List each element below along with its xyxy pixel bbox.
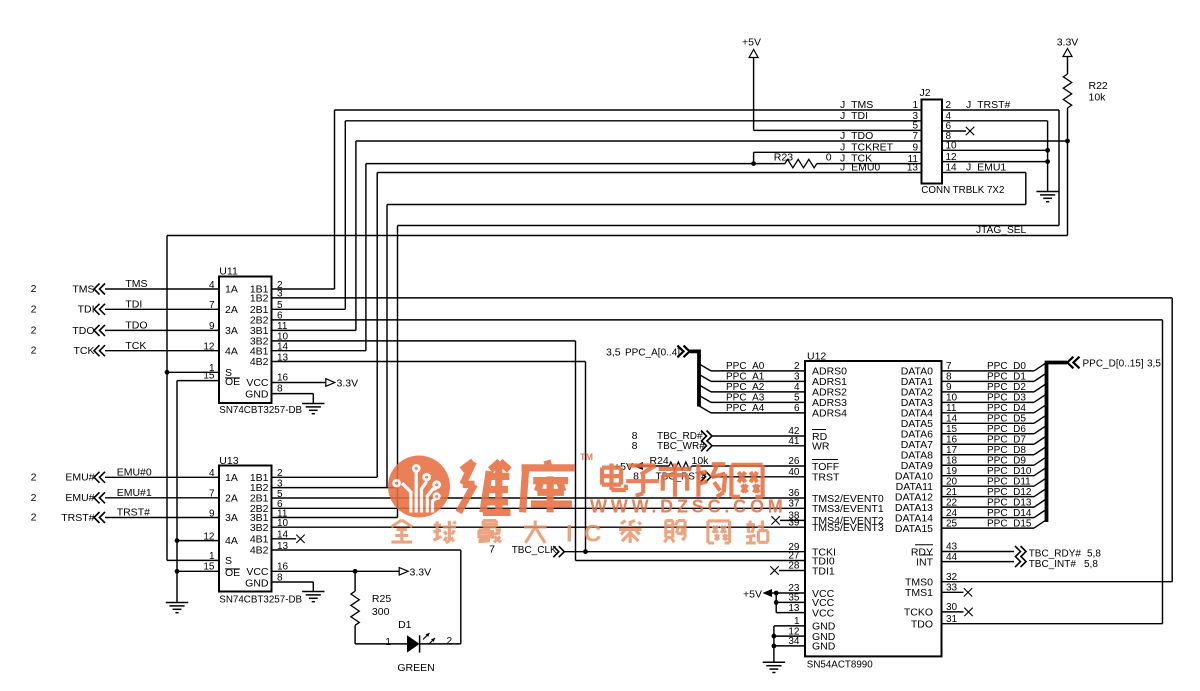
no-connect X on U13 pin14 bbox=[296, 535, 304, 543]
svg-text:TMS5/EVENT3: TMS5/EVENT3 bbox=[812, 522, 884, 534]
svg-text:TDO: TDO bbox=[911, 619, 933, 631]
svg-text:I: I bbox=[566, 521, 573, 548]
svg-text:2: 2 bbox=[31, 471, 37, 483]
svg-text:PPC_D3: PPC_D3 bbox=[987, 393, 1026, 404]
wire TBC_WR# bbox=[712, 445, 805, 447]
port TBC_INT# chevron bbox=[1015, 556, 1026, 567]
svg-text:TMS1: TMS1 bbox=[905, 587, 933, 599]
svg-text:TRST: TRST bbox=[812, 472, 840, 484]
svg-text:PPC_D6: PPC_D6 bbox=[987, 424, 1026, 435]
bus PPC_D trunk bbox=[1047, 363, 1068, 523]
svg-text:2: 2 bbox=[31, 324, 37, 336]
wire port EMU#0 to U13 bbox=[105, 476, 219, 478]
svg-text:EMU#0: EMU#0 bbox=[117, 467, 152, 479]
svg-text:3,5: 3,5 bbox=[606, 347, 621, 359]
svg-text:TMS: TMS bbox=[125, 278, 147, 290]
svg-text:2A: 2A bbox=[225, 304, 238, 316]
junction U13 OE bbox=[175, 569, 180, 574]
svg-text:R22: R22 bbox=[1089, 80, 1108, 92]
svg-text:39: 39 bbox=[788, 517, 800, 528]
bus entry PPC_D5 bbox=[1034, 415, 1046, 423]
port EMU#1 chevron bbox=[94, 492, 105, 503]
port TDO chevron bbox=[94, 325, 105, 336]
port TCK chevron bbox=[94, 345, 105, 356]
svg-text:J2: J2 bbox=[920, 87, 931, 99]
svg-text:WWW.DZSC.COM: WWW.DZSC.COM bbox=[590, 497, 787, 517]
svg-text:PPC_D7: PPC_D7 bbox=[987, 434, 1026, 445]
wire net TDO (U11 2B2 to U12 TDO pin31) bbox=[272, 319, 1163, 321]
wire D1 cathode lead bbox=[420, 643, 461, 645]
wire R23 to J2 pin11 bbox=[817, 163, 922, 165]
svg-text:VCC: VCC bbox=[812, 607, 835, 619]
wire net JTAG_SEL (R22 down, across to U11 S) bbox=[1067, 108, 1069, 236]
wire U12 pin33 stub bbox=[942, 591, 964, 593]
svg-text:R23: R23 bbox=[774, 152, 793, 164]
svg-text:J_TDO: J_TDO bbox=[840, 130, 873, 142]
svg-text:D1: D1 bbox=[398, 619, 412, 631]
no-connect X on J2 pin6 bbox=[966, 127, 974, 135]
wire PPC_D12 bbox=[942, 496, 1035, 498]
svg-text:2A: 2A bbox=[225, 492, 238, 504]
svg-text:PPC_D11: PPC_D11 bbox=[987, 476, 1031, 487]
svg-text:R25: R25 bbox=[372, 593, 391, 605]
svg-text:EMU#: EMU# bbox=[65, 492, 94, 504]
svg-text:PPC_D4: PPC_D4 bbox=[987, 403, 1026, 414]
wire net J_TCK (U11 4B1 pin14 via R23 to J2 pin11) bbox=[272, 350, 366, 352]
svg-text:PPC_A3: PPC_A3 bbox=[726, 393, 765, 404]
no-connect X on U12 pin30 bbox=[964, 608, 972, 616]
svg-text:1B2: 1B2 bbox=[250, 293, 269, 305]
junction TCKI/TBC_CLK bbox=[583, 549, 588, 554]
svg-text:4A: 4A bbox=[225, 345, 238, 357]
svg-text:2: 2 bbox=[447, 636, 453, 647]
bus PPC_D[0..15] chevron and label bbox=[1067, 357, 1079, 369]
no-connect X on U12 pin38 bbox=[771, 516, 779, 524]
svg-text:PPC_D5: PPC_D5 bbox=[987, 414, 1026, 425]
wire U12 pin38 stub bbox=[780, 519, 805, 521]
power 3.3V arrow (U13) bbox=[399, 568, 408, 576]
junction TCK node bbox=[751, 161, 756, 166]
LED D1 symbol bbox=[407, 635, 420, 652]
svg-text:TDI: TDI bbox=[125, 299, 142, 311]
svg-text:3: 3 bbox=[277, 478, 283, 489]
svg-text:U12: U12 bbox=[807, 351, 826, 363]
svg-text:SN74CBT3257-DB: SN74CBT3257-DB bbox=[219, 595, 302, 606]
wire R25 bottom lead to D1 bbox=[354, 625, 356, 644]
junction VCC35 bbox=[774, 600, 779, 605]
svg-text:4B2: 4B2 bbox=[250, 545, 269, 557]
wire PPC_D4 bbox=[942, 412, 1035, 414]
svg-text:2: 2 bbox=[31, 492, 37, 504]
wire PPC_D13 bbox=[942, 506, 1035, 508]
wire U13 3B2 to U12 TMS5/EVENT3 pin39 bbox=[272, 526, 806, 528]
ground symbol at J2 bbox=[1036, 191, 1058, 193]
svg-text:15: 15 bbox=[203, 562, 215, 573]
svg-text:37: 37 bbox=[788, 499, 800, 510]
wire TBC_CLK to U12 TCKI bbox=[564, 551, 805, 553]
svg-text:GND: GND bbox=[245, 577, 269, 589]
wire U12 pin28 stub bbox=[779, 570, 805, 572]
wire PPC_D6 bbox=[942, 433, 1035, 435]
resistor R22 bbox=[1063, 74, 1071, 108]
svg-text:PPC_A4: PPC_A4 bbox=[726, 403, 765, 414]
svg-text:PPC_D[0..15]: PPC_D[0..15] bbox=[1083, 358, 1144, 369]
svg-text:U13: U13 bbox=[219, 455, 238, 467]
svg-text:S: S bbox=[225, 555, 232, 567]
svg-text:GREEN: GREEN bbox=[397, 662, 434, 674]
wire U11 OE / U13 4A,OE to ground bbox=[177, 380, 219, 382]
wire J2 pin12 bbox=[942, 161, 1048, 163]
wire PPC_D2 bbox=[942, 391, 1035, 393]
wire TBC_INT# bbox=[942, 561, 1015, 563]
bus entry PPC_D3 bbox=[1034, 394, 1046, 402]
svg-text:INT: INT bbox=[916, 556, 934, 568]
wire net TMS0 (U11 1B2 to U12 TMS0 pin32) bbox=[272, 297, 1173, 299]
wire U13 2B2 to U12 TMS3/EVENT1 pin37 bbox=[272, 507, 806, 509]
svg-text:PPC_D2: PPC_D2 bbox=[987, 382, 1026, 393]
wire J2 pin6 stub no-connect bbox=[942, 130, 966, 132]
svg-text:PPC_D14: PPC_D14 bbox=[987, 508, 1032, 519]
svg-text:J_TRST#: J_TRST# bbox=[966, 99, 1011, 111]
wire PPC_A0 bbox=[711, 370, 805, 372]
U12 TOFF overbar bbox=[812, 459, 838, 461]
wire R24 to U12 TOFF bbox=[692, 465, 806, 467]
bus entry PPC_D4 bbox=[1034, 405, 1046, 413]
svg-text:31: 31 bbox=[946, 614, 958, 625]
junction GND12 bbox=[772, 634, 777, 639]
junction U13 4A bbox=[175, 538, 180, 543]
svg-text:J_EMU0: J_EMU0 bbox=[840, 162, 880, 174]
wire net TDI0 (U11 3B2 to U12 TDI0 pin27) bbox=[272, 340, 576, 342]
wire TBC_RDY# bbox=[942, 551, 1015, 553]
wire +5V to VCC pins bbox=[772, 592, 805, 594]
svg-text:3B2: 3B2 bbox=[250, 522, 269, 534]
power +5V symbol (top, feeds J2 pin 5) bbox=[749, 50, 758, 58]
svg-text:2: 2 bbox=[31, 283, 37, 295]
svg-text:3.3V: 3.3V bbox=[337, 378, 359, 390]
bus entry PPC_A4 bbox=[699, 406, 711, 413]
bus entry PPC_D15 bbox=[1034, 520, 1046, 528]
wire U13 4B1 stub no-connect bbox=[272, 538, 297, 540]
bus entry PPC_A1 bbox=[699, 374, 711, 381]
svg-text:7: 7 bbox=[912, 131, 918, 142]
svg-text:TBC_CLK: TBC_CLK bbox=[512, 545, 557, 556]
svg-text:PPC_A0: PPC_A0 bbox=[726, 361, 765, 372]
bus entry PPC_D6 bbox=[1034, 426, 1046, 434]
junction GND34 bbox=[772, 644, 777, 649]
svg-text:GND: GND bbox=[812, 641, 836, 653]
wire PPC_D8 bbox=[942, 454, 1035, 456]
junction R25/VCC bbox=[353, 569, 358, 574]
wire PPC_A2 bbox=[711, 391, 805, 393]
svg-text:PPC_D15: PPC_D15 bbox=[987, 518, 1032, 529]
svg-text:11: 11 bbox=[277, 321, 288, 332]
wire U13 VCC to 3.3V and R25 bbox=[272, 570, 400, 572]
wire port TRST# to U13 bbox=[105, 517, 219, 519]
no-connect X on U12 pin28 bbox=[770, 566, 778, 574]
wire J2 pin4 to ground bbox=[942, 120, 1048, 122]
connector J2 body bbox=[922, 100, 943, 184]
svg-text:ADRS4: ADRS4 bbox=[812, 408, 847, 420]
wire net J_TDI (U11 2B1 pin5 to J2 pin3) bbox=[272, 308, 346, 310]
wire U11 GND to ground bbox=[272, 393, 314, 395]
wire net J_EMU0 (U13 1B1 pin2 to J2 pin13) bbox=[272, 476, 378, 478]
svg-text:1A: 1A bbox=[225, 472, 238, 484]
bus entry PPC_D8 bbox=[1034, 447, 1046, 455]
svg-text:U11: U11 bbox=[219, 266, 238, 278]
svg-text:13: 13 bbox=[907, 163, 919, 174]
svg-text:TMS3/EVENT1: TMS3/EVENT1 bbox=[812, 503, 884, 515]
svg-text:TDI1: TDI1 bbox=[812, 565, 835, 577]
junction pin8/R22 bbox=[1065, 139, 1070, 144]
U12 RD overbar bbox=[812, 429, 826, 431]
wire PPC_D15 bbox=[942, 527, 1035, 529]
wire PPC_D10 bbox=[942, 475, 1035, 477]
bus entry PPC_D10 bbox=[1034, 468, 1046, 476]
svg-text:EMU#1: EMU#1 bbox=[117, 487, 152, 499]
wire net J_TMS (U11 1B1 pin2 to J2 pin1) bbox=[272, 288, 335, 290]
IC U13 body SN74CBT3257-DB bbox=[219, 466, 272, 592]
svg-text:TRST#: TRST# bbox=[61, 512, 94, 524]
ground symbol below U13 left bbox=[166, 602, 188, 604]
svg-text:3,5: 3,5 bbox=[1147, 358, 1161, 369]
port TRST# chevron bbox=[94, 512, 105, 523]
wire net J_TDO (U11 3B1 pin11 to J2 pin7) bbox=[272, 329, 356, 331]
wire PPC_A3 bbox=[711, 401, 805, 403]
svg-text:12: 12 bbox=[203, 531, 215, 542]
wire port TMS to U11 bbox=[105, 288, 219, 290]
svg-text:SN54ACT8990: SN54ACT8990 bbox=[807, 659, 873, 670]
wire PPC_D1 bbox=[942, 380, 1035, 382]
watermark dzsc.com logo bbox=[388, 452, 787, 518]
svg-text:5: 5 bbox=[912, 121, 918, 132]
bus entry PPC_D0 bbox=[1034, 363, 1046, 371]
port EMU#0 chevron bbox=[94, 472, 105, 483]
IC U12 body SN54ACT8990 bbox=[805, 361, 942, 656]
svg-text:CONN TRBLK 7X2: CONN TRBLK 7X2 bbox=[921, 185, 1004, 196]
wire net J_TRST# (J2 pin2 down to U13 3B1 pin11) bbox=[942, 109, 1059, 111]
U12 RDY overbar bbox=[915, 544, 933, 546]
bus entry PPC_D12 bbox=[1034, 489, 1046, 497]
svg-text:C: C bbox=[584, 521, 601, 548]
svg-text:EMU#: EMU# bbox=[65, 472, 94, 484]
resistor R23 bbox=[785, 159, 817, 167]
svg-text:PPC_D9: PPC_D9 bbox=[987, 455, 1026, 466]
no-connect X on U12 pin33 bbox=[964, 588, 972, 596]
power 3.3V symbol (R22 pullup) bbox=[1063, 49, 1072, 57]
bus PPC_A trunk bbox=[690, 351, 699, 406]
svg-text:300: 300 bbox=[372, 606, 390, 618]
bus entry PPC_A0 bbox=[699, 364, 711, 371]
svg-text:PPC_D0: PPC_D0 bbox=[987, 361, 1026, 372]
power 3.3V arrow (U11) bbox=[326, 379, 335, 387]
svg-text:2: 2 bbox=[31, 303, 37, 315]
junction VCC23 bbox=[774, 591, 779, 596]
U12 INT overbar bbox=[921, 554, 933, 556]
port TMS chevron bbox=[94, 284, 105, 295]
wire U13 GND to ground bbox=[272, 581, 314, 583]
svg-text:PPC_D12: PPC_D12 bbox=[987, 487, 1032, 498]
wire +5V to J2 pin5 bbox=[753, 58, 755, 131]
svg-text:PPC_D13: PPC_D13 bbox=[987, 497, 1032, 508]
wire PPC_D11 bbox=[942, 485, 1035, 487]
svg-text:PPC_A1: PPC_A1 bbox=[726, 372, 765, 383]
svg-text:14: 14 bbox=[277, 342, 289, 353]
bus entry PPC_A2 bbox=[699, 385, 711, 392]
resistor R25 bbox=[351, 591, 359, 625]
wire PPC_D7 bbox=[942, 443, 1035, 445]
svg-text:TDO: TDO bbox=[125, 320, 147, 332]
wire J_TCKRET jog to J2 pin9 bbox=[753, 152, 755, 163]
wire U12 GND pins to ground bbox=[774, 625, 805, 627]
svg-text:J_EMU1: J_EMU1 bbox=[966, 162, 1006, 174]
IC U11 body SN74CBT3257-DB bbox=[219, 277, 272, 404]
wire +5V to R24 bbox=[643, 465, 669, 467]
svg-text:32: 32 bbox=[946, 572, 958, 583]
svg-text:TM: TM bbox=[580, 452, 593, 462]
wire R25 top lead bbox=[354, 571, 356, 591]
wire net J_EMU1 (J2 pin14 to U13 1B2 pin3) bbox=[942, 172, 1026, 174]
wire U13 2B1 to U12 TMS2/EVENT0 pin36 bbox=[272, 497, 806, 499]
wire PPC_D0 bbox=[942, 370, 1035, 372]
junction U11 S / JTAG_SEL bbox=[165, 370, 170, 375]
wire U12 pin30 stub bbox=[942, 611, 964, 613]
svg-text:WR: WR bbox=[812, 441, 830, 453]
svg-text:JTAG_SEL: JTAG_SEL bbox=[976, 225, 1027, 236]
wire PPC_D14 bbox=[942, 517, 1035, 519]
wire U13 4B2 to LED D1 cathode bbox=[272, 549, 461, 551]
svg-text:TCK: TCK bbox=[74, 345, 95, 357]
svg-text:PPC_D8: PPC_D8 bbox=[987, 445, 1026, 456]
wire TBC_RD# bbox=[712, 435, 805, 437]
svg-text:8: 8 bbox=[632, 440, 638, 452]
bus entry PPC_D11 bbox=[1034, 478, 1046, 486]
port TBC_RDY# chevron bbox=[1015, 546, 1026, 557]
svg-text:TMS: TMS bbox=[72, 283, 94, 295]
svg-text:7: 7 bbox=[489, 544, 495, 556]
svg-text:4B2: 4B2 bbox=[250, 356, 269, 368]
wire TBC_RST# bbox=[711, 476, 805, 478]
junction J2 pin12 gnd bbox=[1045, 159, 1050, 164]
svg-text:3A: 3A bbox=[225, 512, 238, 524]
wire PPC_D3 bbox=[942, 401, 1035, 403]
wire U11 S pin1 row bbox=[167, 371, 219, 373]
ground symbol at U11 bbox=[302, 403, 324, 405]
svg-text:2: 2 bbox=[31, 345, 37, 357]
svg-text:PPC_D1: PPC_D1 bbox=[987, 372, 1026, 383]
svg-text:2: 2 bbox=[31, 512, 37, 524]
svg-text:3.3V: 3.3V bbox=[1057, 36, 1079, 48]
svg-text:TBC_WR#: TBC_WR# bbox=[657, 441, 705, 452]
wire port EMU#1 to U13 bbox=[105, 497, 219, 499]
svg-text:8: 8 bbox=[277, 383, 283, 394]
bus entry PPC_D2 bbox=[1034, 384, 1046, 392]
svg-text:TCKO: TCKO bbox=[904, 607, 933, 619]
svg-text:3.3V: 3.3V bbox=[410, 567, 432, 579]
svg-text:PPC_D10: PPC_D10 bbox=[987, 466, 1032, 477]
ground symbol at U12 bbox=[763, 661, 785, 663]
wire PPC_D5 bbox=[942, 422, 1035, 424]
svg-text:5,8: 5,8 bbox=[1084, 559, 1098, 570]
wire PPC_A1 bbox=[711, 380, 805, 382]
svg-text:PPC_A2: PPC_A2 bbox=[726, 382, 765, 393]
svg-text:1: 1 bbox=[209, 551, 215, 562]
svg-text:1A: 1A bbox=[225, 284, 238, 296]
svg-text:0: 0 bbox=[826, 151, 832, 163]
wire port TDI to U11 bbox=[105, 308, 219, 310]
svg-text:TDO: TDO bbox=[72, 325, 94, 337]
wire U13 S pin1 row bbox=[167, 559, 219, 561]
junction J2 pin10 gnd bbox=[1045, 148, 1050, 153]
wire PPC_D9 bbox=[942, 464, 1035, 466]
svg-text:3A: 3A bbox=[225, 325, 238, 337]
wire PPC_A4 bbox=[711, 412, 805, 414]
wire 3.3V to R22 bbox=[1067, 57, 1069, 75]
svg-text:9: 9 bbox=[912, 143, 918, 154]
wire J2 pin10 bbox=[942, 149, 1048, 151]
bus entry PPC_D13 bbox=[1034, 499, 1046, 507]
svg-text:4B1: 4B1 bbox=[250, 533, 269, 545]
wire net TCKI (U11 4B2 to U12 TCKI pin29) bbox=[272, 361, 586, 363]
wire port TCK to U11 bbox=[105, 350, 219, 352]
bus entry PPC_D14 bbox=[1034, 510, 1046, 518]
svg-text:TCK: TCK bbox=[125, 340, 146, 352]
svg-text:1: 1 bbox=[385, 637, 391, 648]
bus entry PPC_A3 bbox=[699, 395, 711, 402]
bus entry PPC_D9 bbox=[1034, 457, 1046, 465]
svg-text:+5V: +5V bbox=[742, 36, 761, 48]
bus entry PPC_D7 bbox=[1034, 436, 1046, 444]
bus entry PPC_D1 bbox=[1034, 373, 1046, 381]
svg-text:16: 16 bbox=[277, 372, 289, 383]
wire J2 pin8 to R22 net bbox=[942, 140, 1068, 142]
port TDI chevron bbox=[94, 304, 105, 315]
svg-text:TBC_INT#: TBC_INT# bbox=[1029, 559, 1077, 570]
ground symbol at U13 bbox=[302, 591, 324, 593]
svg-text:10k: 10k bbox=[1089, 92, 1107, 104]
svg-text:1: 1 bbox=[912, 100, 918, 111]
svg-text:+5V: +5V bbox=[743, 589, 762, 601]
wire U11 VCC to 3.3V bbox=[272, 382, 326, 384]
svg-text:TDI: TDI bbox=[78, 304, 95, 316]
svg-text:GND: GND bbox=[245, 388, 269, 400]
svg-text:DATA15: DATA15 bbox=[895, 523, 933, 535]
svg-text:SN74CBT3257-DB: SN74CBT3257-DB bbox=[219, 405, 302, 416]
svg-text:J_TDI: J_TDI bbox=[840, 110, 868, 122]
resistor R24 bbox=[669, 462, 692, 470]
svg-text:4A: 4A bbox=[225, 535, 238, 547]
svg-text:PPC_A[0..4]: PPC_A[0..4] bbox=[625, 348, 680, 359]
svg-text:5: 5 bbox=[277, 300, 283, 311]
wire port TDO to U11 bbox=[105, 329, 219, 331]
svg-text:TRST#: TRST# bbox=[117, 507, 150, 519]
